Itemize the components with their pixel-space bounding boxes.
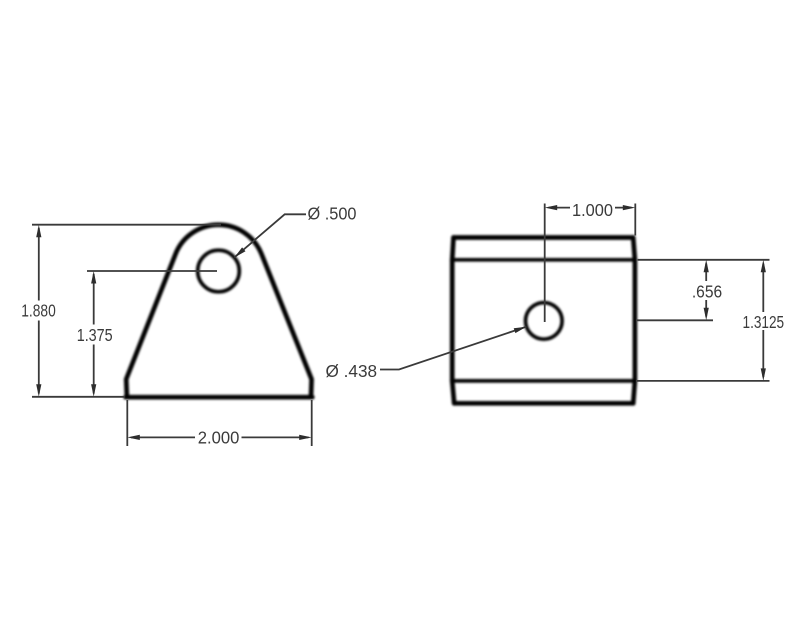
svg-text:.656: .656	[692, 282, 722, 302]
svg-text:1.000: 1.000	[572, 200, 613, 220]
svg-text:1.375: 1.375	[77, 325, 113, 345]
svg-text:Ø .500: Ø .500	[308, 204, 357, 224]
svg-text:2.000: 2.000	[198, 428, 240, 448]
svg-text:1.880: 1.880	[21, 300, 56, 320]
svg-text:Ø .438: Ø .438	[326, 361, 378, 381]
svg-text:1.3125: 1.3125	[743, 312, 785, 332]
